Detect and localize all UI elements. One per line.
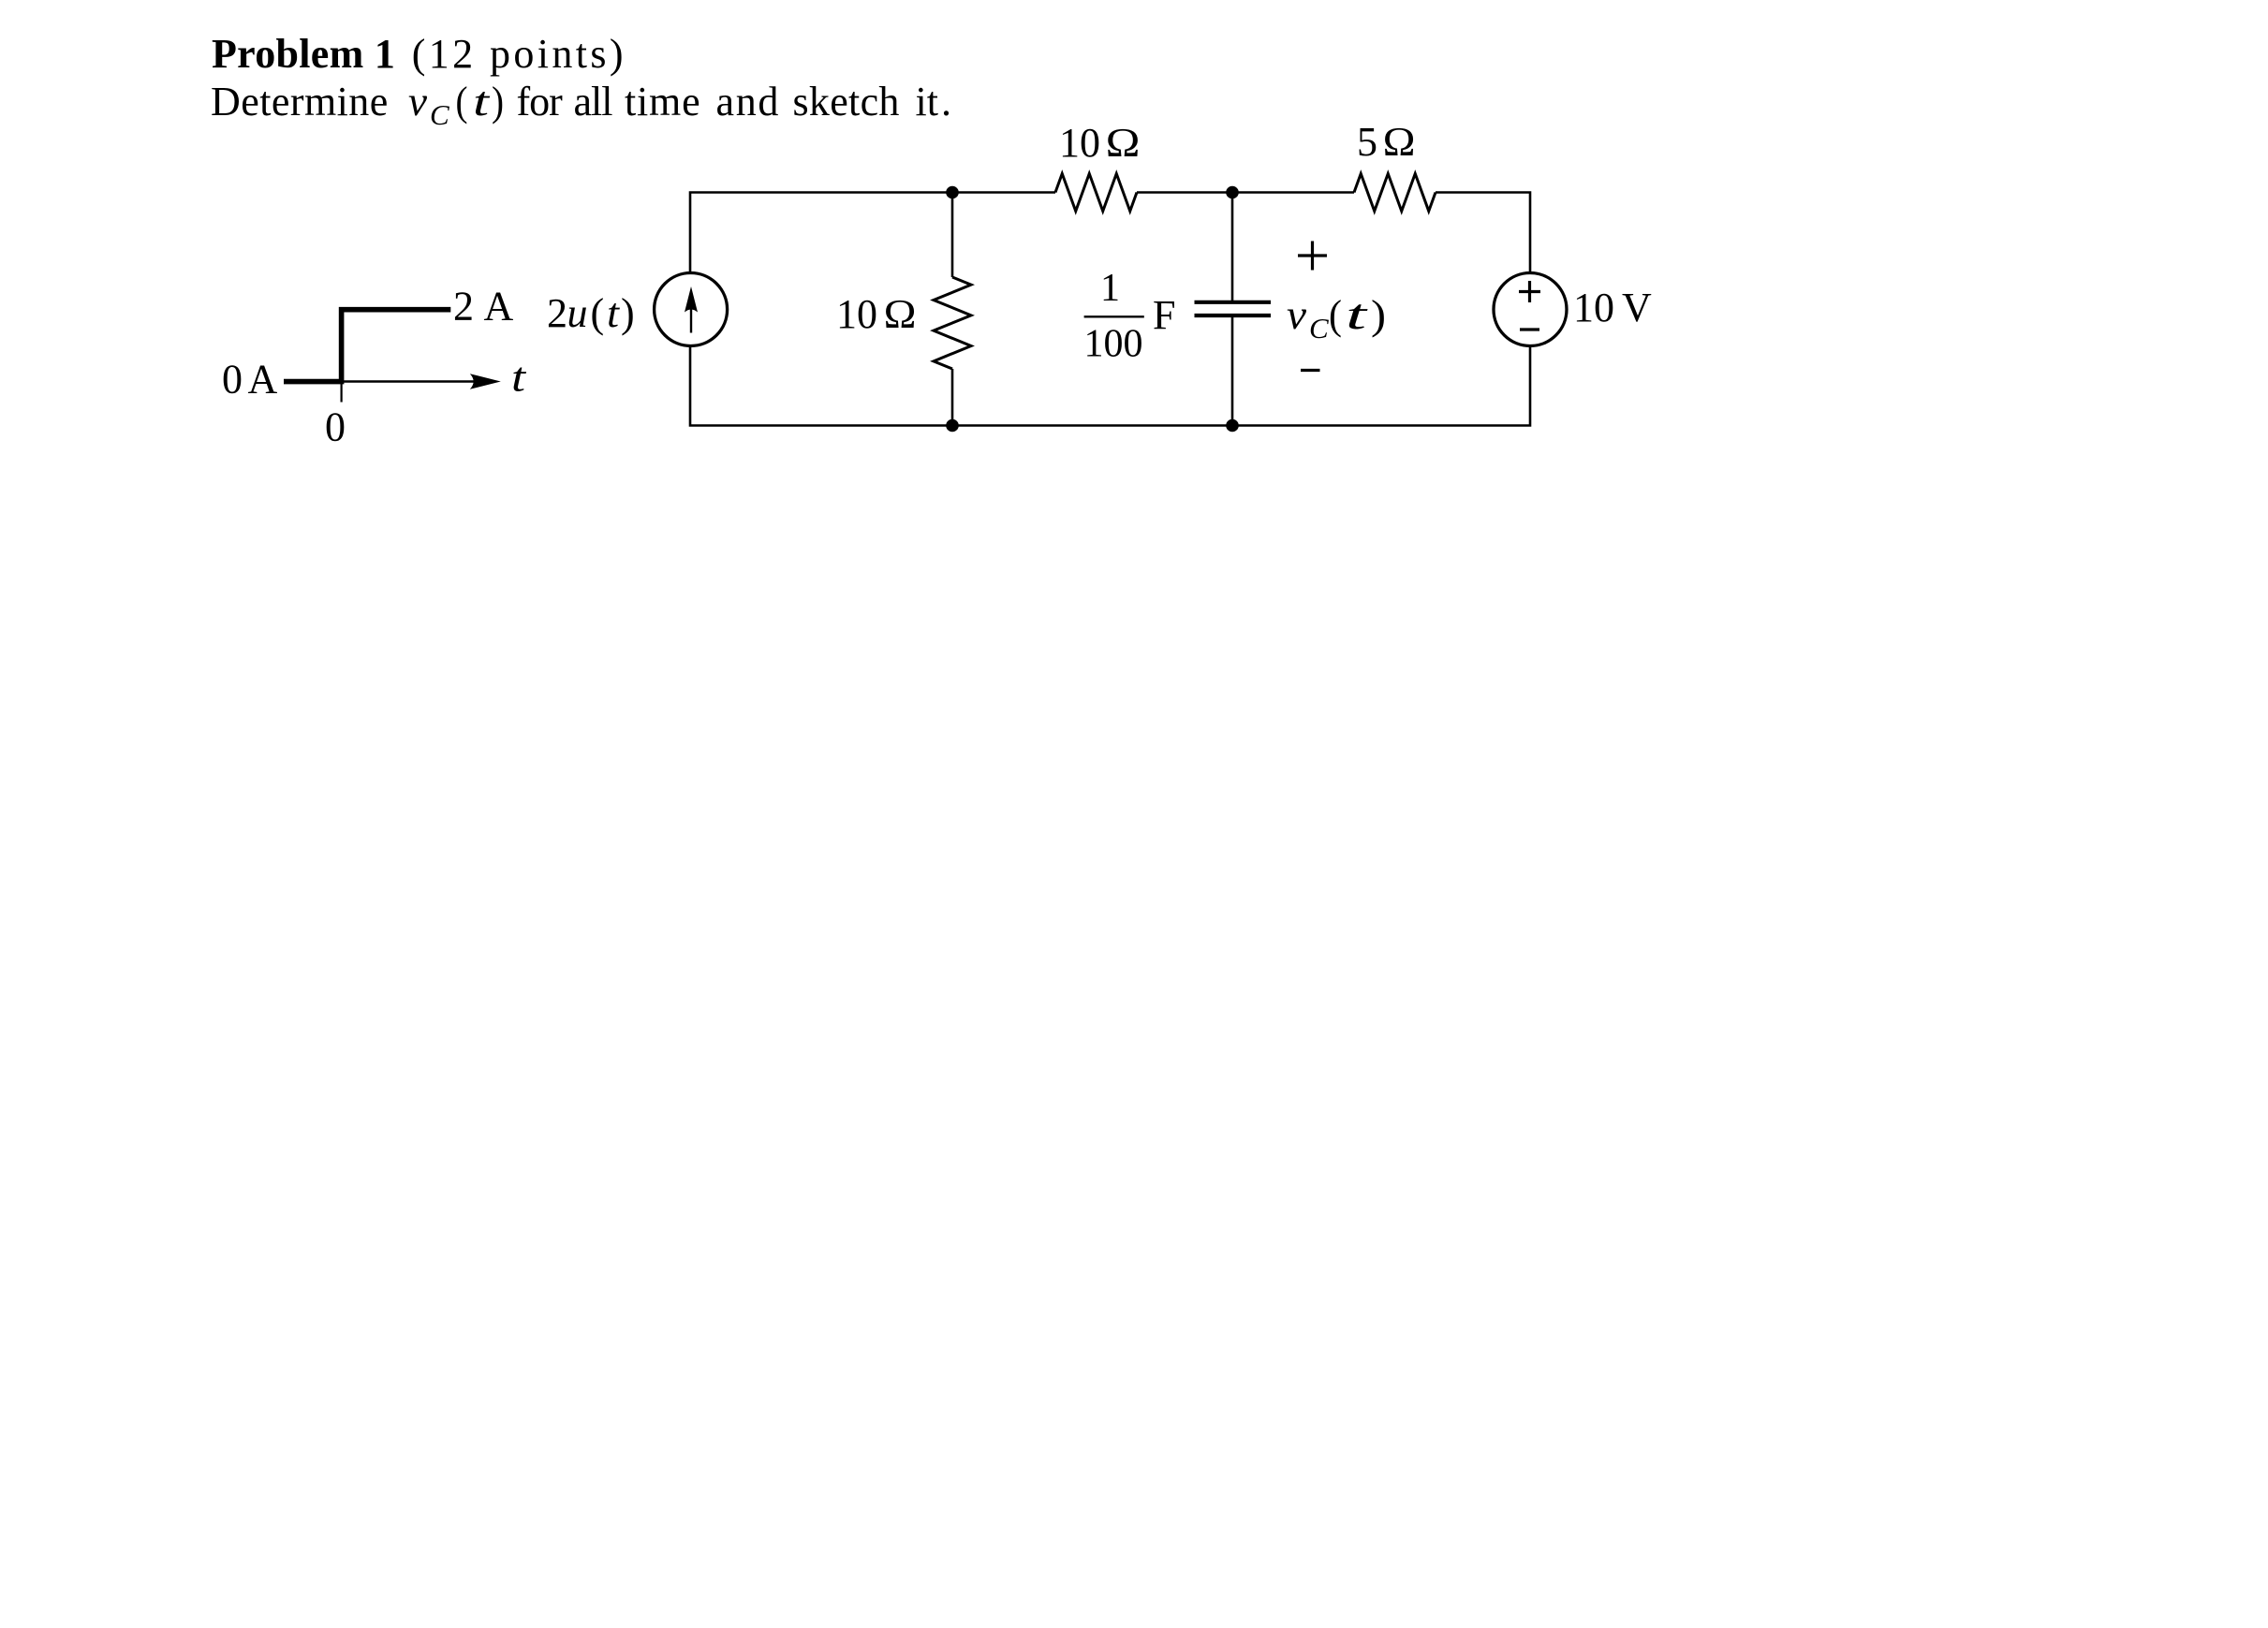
node B bottom junction dot <box>1226 419 1239 433</box>
voltage source V1 minus <box>1520 328 1539 330</box>
wire bottom <box>690 345 1530 426</box>
svg-text:Problem 1: Problem 1 <box>212 31 395 77</box>
node B top junction dot <box>1226 186 1239 199</box>
step graph: 2A level label <box>453 284 514 330</box>
voltage source V1 plus <box>1519 281 1540 302</box>
label I1 value 2u(t) <box>547 290 635 336</box>
label R1 10 Ohm <box>836 291 917 337</box>
voltage source V1 (10 V) circle <box>1494 273 1567 346</box>
svg-text:Ω: Ω <box>883 291 917 337</box>
svg-text:(12 points): (12 points) <box>412 31 626 77</box>
svg-text:Ω: Ω <box>1105 120 1141 166</box>
svg-text:Ω: Ω <box>1382 119 1416 165</box>
svg-text:10: 10 <box>1059 120 1100 166</box>
svg-text:5: 5 <box>1357 119 1377 165</box>
svg-text:10: 10 <box>836 291 877 337</box>
svg-text:t: t <box>511 355 527 401</box>
svg-text:0: 0 <box>325 404 346 450</box>
svg-text:A: A <box>484 284 514 330</box>
resistor R2 10ohm top zigzag <box>1055 174 1137 212</box>
label R3 5 Ohm <box>1357 119 1416 165</box>
current source I1 arrow <box>685 286 698 333</box>
subtitle Determine vC(t) for all time and sketch it. <box>211 79 951 134</box>
svg-text:0: 0 <box>222 357 243 403</box>
wire capacitor to bottom <box>1231 317 1234 426</box>
svg-text:10: 10 <box>1573 285 1614 330</box>
wire R1 to bottom <box>951 369 954 426</box>
label vC(t) plus sign <box>1298 242 1327 271</box>
resistor R1 10ohm vertical zigzag <box>934 277 971 369</box>
label vC(t) <box>1287 290 1386 345</box>
wire node A to R1 <box>951 193 954 278</box>
resistor R3 5ohm zigzag <box>1354 174 1436 212</box>
svg-text:2: 2 <box>453 284 474 330</box>
step graph: 0A level label <box>222 357 278 403</box>
svg-text:1: 1 <box>1100 267 1120 310</box>
wire top middle <box>1137 191 1354 194</box>
svg-text:F: F <box>1153 292 1175 338</box>
wire top-right corner <box>1436 193 1530 274</box>
svg-text:2u(t): 2u(t) <box>547 290 635 336</box>
svg-text:A: A <box>248 357 278 403</box>
svg-text:100: 100 <box>1084 323 1143 366</box>
node A bottom junction dot <box>946 419 959 433</box>
current source I1 (2u(t)) circle <box>655 273 728 346</box>
wire top-left corner <box>690 193 1055 274</box>
capacitor C1 plates <box>1195 302 1272 315</box>
svg-text:V: V <box>1622 285 1652 330</box>
label R2 10 Ohm <box>1059 120 1141 166</box>
label vC(t) minus sign <box>1301 369 1320 372</box>
node A top junction dot <box>946 186 959 199</box>
step graph: time axis <box>342 374 501 389</box>
svg-text:vC(t): vC(t) <box>1287 290 1386 345</box>
step graph: t axis label <box>511 355 527 401</box>
step graph: 0 origin label <box>325 404 346 450</box>
title Problem 1 (12 points) <box>212 31 626 77</box>
label V1 10 V <box>1573 285 1652 330</box>
step graph: origin tick <box>341 382 343 403</box>
step graph: signal thick polyline <box>284 310 450 382</box>
wire node B to capacitor <box>1231 193 1234 301</box>
label C1 value fraction 1/100 F <box>1084 267 1176 366</box>
